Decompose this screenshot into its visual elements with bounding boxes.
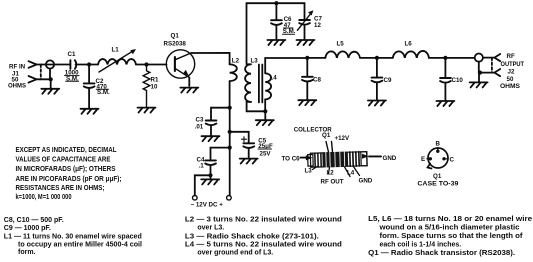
svg-text:TO C6: TO C6 bbox=[282, 155, 301, 162]
capacitor C9 bbox=[376, 58, 378, 77]
svg-text:over ground end of L3.: over ground end of L3. bbox=[197, 250, 273, 257]
node C8 junction bbox=[305, 56, 309, 60]
svg-text:OHMS: OHMS bbox=[500, 83, 520, 90]
ground C4 bbox=[210, 175, 212, 178]
svg-text:OUTPUT: OUTPUT bbox=[501, 61, 525, 68]
ground T1 bbox=[264, 111, 266, 119]
capacitor C2 bbox=[88, 65, 90, 84]
svg-text:L6: L6 bbox=[405, 41, 413, 48]
svg-text:RS2038: RS2038 bbox=[164, 40, 187, 47]
ground C7 bbox=[297, 40, 315, 45]
svg-text:L3: L3 bbox=[305, 167, 313, 174]
TO-39 pin C bbox=[442, 157, 445, 160]
connector J1 bbox=[29, 60, 55, 82]
svg-text:EXCEPT AS INDICATED, DECIMAL: EXCEPT AS INDICATED, DECIMAL bbox=[16, 147, 117, 154]
svg-text:L2: L2 bbox=[327, 170, 335, 177]
node J1 shield junction bbox=[49, 77, 53, 81]
inductor L2 bbox=[230, 64, 237, 81]
svg-text:L4 — 5 turns No. 22 insulated: L4 — 5 turns No. 22 insulated wire wound bbox=[185, 242, 342, 249]
capacitor C8 bbox=[306, 58, 308, 76]
coil assembly winding L2 band bbox=[322, 152, 348, 168]
ground J2 bbox=[478, 73, 480, 82]
svg-text:C8, C10 — 500 pF.: C8, C10 — 500 pF. bbox=[4, 217, 64, 224]
svg-text:C9 — 1000 pF.: C9 — 1000 pF. bbox=[4, 225, 51, 232]
svg-text:GND: GND bbox=[383, 155, 397, 162]
svg-text:ARE IN PICOFARADS (pF OR μμF);: ARE IN PICOFARADS (pF OR μμF); bbox=[16, 176, 122, 183]
svg-text:C9: C9 bbox=[384, 77, 392, 84]
svg-text:VALUES OF CAPACITANCE ARE: VALUES OF CAPACITANCE ARE bbox=[16, 157, 111, 164]
node C2 tap bbox=[87, 62, 91, 66]
svg-text:L1: L1 bbox=[112, 46, 120, 53]
svg-text:+12V: +12V bbox=[335, 135, 350, 142]
wire L2 bottom to rail bbox=[229, 81, 231, 108]
coil assembly top leads bbox=[326, 142, 333, 153]
ground R1 bbox=[138, 108, 156, 113]
wire C1 to L1 bbox=[76, 64, 99, 66]
wire L3 feed bbox=[247, 3, 305, 63]
svg-text:form. Space turns so that the: form. Space turns so that the length of bbox=[380, 233, 524, 240]
svg-text:J2: J2 bbox=[508, 68, 515, 75]
svg-text:C3: C3 bbox=[196, 117, 204, 124]
svg-text:B: B bbox=[436, 140, 441, 147]
wire L3 bottom bbox=[247, 102, 266, 111]
ground C10 bbox=[436, 101, 454, 106]
capacitor C10 bbox=[444, 58, 446, 78]
node C3 branch bbox=[228, 106, 232, 110]
svg-text:L5: L5 bbox=[337, 41, 345, 48]
svg-text:L1 — 11 turns No. 30 enamel wi: L1 — 11 turns No. 30 enamel wire spaced bbox=[4, 233, 142, 240]
svg-text:L5, L6 — 18 turns No. 18 or 20: L5, L6 — 18 turns No. 18 or 20 enamel wi… bbox=[368, 216, 532, 223]
svg-text:IN MICROFARADS (μF); OTHERS: IN MICROFARADS (μF); OTHERS bbox=[16, 166, 116, 173]
wire J1 shield bbox=[37, 69, 51, 80]
TO-39 pin E bbox=[429, 157, 432, 160]
svg-text:CASE TO-39: CASE TO-39 bbox=[417, 181, 459, 188]
svg-text:S.M.: S.M. bbox=[97, 89, 110, 96]
svg-text:to occupy an entire Miller 450: to occupy an entire Miller 4500-4 coil bbox=[18, 242, 142, 249]
wire L4 top to C8 bbox=[265, 58, 307, 73]
svg-text:L4: L4 bbox=[270, 75, 278, 82]
wire L1 to base bbox=[136, 64, 167, 66]
coil assembly winding L4 band bbox=[350, 152, 359, 167]
svg-text:C1: C1 bbox=[68, 51, 76, 58]
ground C5 bbox=[240, 159, 258, 164]
svg-text:L2 — 3 turns No. 22 insulated: L2 — 3 turns No. 22 insulated wire wound bbox=[185, 217, 342, 224]
wire supply rail bbox=[229, 108, 231, 196]
svg-text:Q1: Q1 bbox=[171, 33, 180, 40]
node C4 branch bbox=[228, 146, 232, 150]
inductor L6 bbox=[393, 51, 429, 58]
ground C3 bbox=[202, 136, 220, 141]
wire collector bbox=[191, 53, 230, 64]
capacitor C4 bbox=[211, 148, 230, 160]
svg-text:.1: .1 bbox=[199, 163, 205, 170]
svg-text:Q1: Q1 bbox=[433, 173, 442, 180]
connector J2 bbox=[475, 54, 483, 62]
wire J1 top to C1 bbox=[37, 64, 71, 66]
coil assembly winding L3 band bbox=[315, 153, 321, 167]
inductor L3 bbox=[245, 64, 251, 102]
coil assembly lead GND right bbox=[369, 155, 381, 157]
ground C6 bbox=[267, 40, 285, 45]
terminal minus bbox=[193, 196, 198, 201]
node T1 ground junction bbox=[263, 109, 267, 113]
node C6 top bbox=[274, 1, 278, 5]
capacitor C6 bbox=[275, 3, 277, 20]
capacitor C5 bbox=[230, 132, 249, 143]
node C4 bottom junction bbox=[208, 173, 212, 177]
wire L5 to C9 bbox=[360, 57, 393, 59]
node base junction bbox=[144, 62, 148, 66]
svg-text:C: C bbox=[450, 156, 455, 163]
capacitor C1 bbox=[70, 60, 76, 69]
svg-text:L2: L2 bbox=[232, 58, 240, 65]
coil assembly body bbox=[308, 152, 368, 168]
transistor Q1 bbox=[166, 50, 194, 78]
wire L4 bottom bbox=[264, 99, 266, 111]
inductor L5 bbox=[325, 51, 360, 58]
TO-39 pin B bbox=[436, 150, 439, 153]
terminal plus bbox=[227, 196, 232, 201]
svg-text:OHMS: OHMS bbox=[8, 83, 26, 90]
svg-text:10: 10 bbox=[151, 83, 158, 90]
svg-text:GND: GND bbox=[359, 178, 373, 185]
coil assembly bottom leads bbox=[329, 167, 360, 177]
svg-text:each coil is 1-1/4 inches.: each coil is 1-1/4 inches. bbox=[380, 242, 462, 249]
wire emitter bbox=[188, 77, 190, 86]
arrow C7 variable bbox=[297, 14, 310, 31]
svg-text:Q1: Q1 bbox=[322, 132, 331, 139]
ground C2 bbox=[81, 109, 99, 114]
svg-text:50: 50 bbox=[507, 76, 514, 83]
inductor L4 bbox=[265, 73, 271, 99]
wire L6 to C10 bbox=[429, 57, 475, 59]
ground C9 bbox=[368, 101, 386, 106]
node J2 shield junction bbox=[478, 71, 482, 75]
node C10 junction bbox=[443, 56, 447, 60]
ground C8 bbox=[298, 100, 316, 105]
svg-text:RESISTANCES ARE IN OHMS;: RESISTANCES ARE IN OHMS; bbox=[16, 185, 105, 192]
svg-text:Q1 — Radio Shack transistor (R: Q1 — Radio Shack transistor (RS2038). bbox=[368, 250, 515, 257]
svg-text:L4: L4 bbox=[347, 170, 355, 177]
svg-text:form.: form. bbox=[18, 249, 36, 256]
svg-text:C8: C8 bbox=[313, 76, 321, 83]
core T1 bbox=[259, 65, 262, 103]
resistor R1 bbox=[143, 65, 150, 107]
svg-text:25V: 25V bbox=[260, 150, 272, 157]
svg-text:E: E bbox=[421, 156, 425, 163]
svg-text:− 12V DC +: − 12V DC + bbox=[191, 202, 224, 209]
svg-text:C10: C10 bbox=[452, 77, 464, 84]
capacitor C7 variable bbox=[304, 3, 306, 19]
node C5 branch bbox=[228, 130, 232, 134]
svg-text:L3 — Radio Shack choke (273-10: L3 — Radio Shack choke (273-101). bbox=[185, 233, 319, 240]
svg-text:RF: RF bbox=[507, 53, 515, 60]
TO-39 case circle bbox=[428, 148, 448, 168]
inductor L1 bbox=[98, 59, 136, 64]
wire to minus terminal bbox=[195, 175, 211, 195]
arrow L1 variable bbox=[99, 51, 133, 72]
TO-39 tab bbox=[428, 164, 432, 169]
svg-text:over L3.: over L3. bbox=[197, 224, 224, 231]
svg-text:wound on a 5/16-inch diameter: wound on a 5/16-inch diameter plastic bbox=[378, 224, 519, 231]
node C9 junction bbox=[375, 56, 379, 60]
svg-text:12: 12 bbox=[314, 22, 321, 29]
ground J1 bbox=[50, 79, 52, 88]
svg-text:k=1000, M=1 000 000: k=1000, M=1 000 000 bbox=[16, 194, 72, 201]
ground emitter bbox=[180, 88, 198, 93]
svg-text:.01: .01 bbox=[195, 124, 204, 131]
svg-text:RF OUT: RF OUT bbox=[321, 179, 344, 186]
capacitor C3 bbox=[211, 108, 230, 120]
svg-text:L3: L3 bbox=[251, 57, 259, 64]
wire C8 to L5 bbox=[307, 57, 325, 59]
